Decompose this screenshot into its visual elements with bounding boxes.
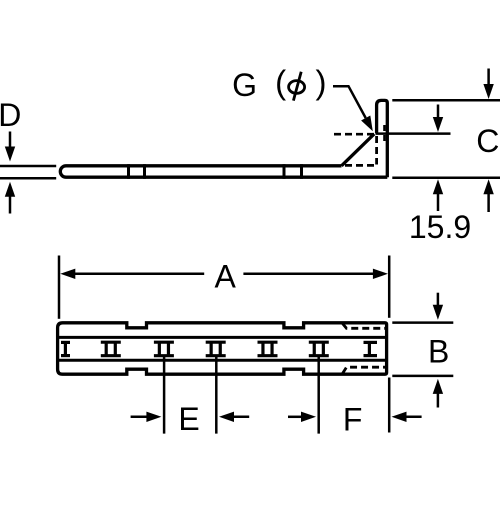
hidden hole centerline (dashed) (334, 133, 375, 136)
A extension line left (58, 256, 61, 319)
hidden flange inner edge (dashed vertical) (375, 136, 378, 165)
B dimension arrow up (433, 379, 443, 408)
B extension line top (392, 321, 453, 324)
A extension line right (upper part) (388, 256, 391, 318)
inner bottom line (59, 359, 387, 362)
C dimension arrow up (outer right) (483, 179, 493, 212)
inner top line (59, 336, 387, 339)
slot II #1 (101, 342, 121, 356)
A dimension line with arrows (60, 269, 388, 279)
hole-center extension line (right, solid) (376, 132, 451, 135)
slot II #3 (206, 342, 226, 356)
F leader line (from slot II #5) (317, 356, 320, 434)
top height extension line (right, at flange top) (392, 99, 500, 102)
15.9 dimension arrow up (inner) (433, 179, 443, 211)
slot II #2 (154, 342, 174, 356)
15.9 dimension arrow down (inner) (433, 105, 443, 133)
plan outline with notches (58, 323, 387, 374)
arm outline (horizontal leg, rounded left tip) (60, 166, 387, 177)
slot II #4 (258, 342, 278, 356)
F arrow pointing left (392, 412, 422, 422)
svg-text:(: ( (275, 64, 286, 101)
E arrow pointing left (219, 412, 249, 422)
svg-text:G: G (232, 67, 257, 103)
D dimension arrow (down) (5, 132, 15, 162)
svg-text:C: C (476, 123, 499, 159)
bottom extension line (right, at arm bottom) (392, 176, 500, 179)
slot II #5 (309, 342, 329, 356)
svg-text:B: B (428, 334, 449, 370)
svg-text:A: A (215, 258, 237, 294)
E leader line right (from slot II #3) (215, 356, 218, 434)
hidden arm top edge under tab (dashed) (345, 164, 376, 167)
hidden hole in flange (short dashed vertical) (383, 125, 386, 144)
bend diagonal (gusset tab edge) (342, 134, 375, 166)
hidden flange edge bottom (dashed) (343, 367, 386, 373)
svg-text:): ) (316, 64, 327, 101)
phi symbol (289, 72, 305, 101)
A extension line right (lower part, to F) (388, 378, 391, 433)
tick seam left pair (129, 164, 145, 179)
slot I (right end) (364, 342, 378, 355)
C dimension arrow down (outer right) (483, 69, 493, 100)
hidden flange edge top (dashed) (343, 324, 386, 329)
tick seam right pair (284, 164, 302, 179)
svg-text:15.9: 15.9 (409, 209, 471, 245)
E arrow pointing right (131, 412, 162, 422)
G leader line with arrowhead (333, 86, 373, 131)
F arrow pointing right (288, 412, 316, 422)
E leader line left (from slot II #2) (163, 356, 166, 434)
svg-text:D: D (0, 97, 21, 133)
flange outline (vertical leg, rounded top-left corner) (377, 100, 388, 177)
B dimension arrow down (433, 293, 443, 320)
D dimension arrow (up) (5, 182, 15, 214)
svg-text:F: F (343, 401, 363, 437)
B extension line bottom (392, 375, 453, 378)
slot I (left end) (61, 342, 70, 355)
D extension lines (0, 166, 56, 178)
svg-text:E: E (178, 401, 199, 437)
